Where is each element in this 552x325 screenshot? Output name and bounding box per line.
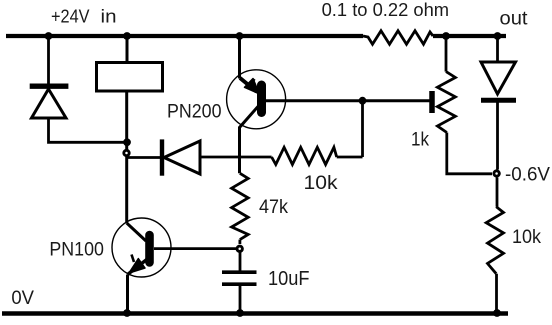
svg-text:PN100: PN100 xyxy=(49,239,104,261)
svg-text:out: out xyxy=(500,9,529,30)
transistor Q2 collector lead xyxy=(127,223,146,241)
wire: D1 anode down and right to node xyxy=(49,118,128,142)
wire: node to R4 xyxy=(496,178,499,207)
svg-text:10k: 10k xyxy=(512,226,541,248)
node: junction dot 0V/capacitor xyxy=(236,309,244,317)
relay coil box xyxy=(97,63,163,92)
potentiometer VR1 1k zigzag xyxy=(437,72,455,133)
node: junction dot rail/out diode xyxy=(494,32,502,40)
diode D3 triangle xyxy=(481,62,516,94)
node: junction dot rail/D1 xyxy=(45,32,53,40)
transistor Q1 PN200 circle xyxy=(227,70,286,129)
node: junction dot 0V/Q2 emitter xyxy=(123,309,131,317)
svg-text:0V: 0V xyxy=(11,287,34,309)
wire: Q2 emitter to 0V rail xyxy=(126,275,129,313)
wire: rail to D1 cathode xyxy=(47,36,50,84)
svg-text:10uF: 10uF xyxy=(268,268,310,290)
svg-text:0.1 to 0.22 ohm: 0.1 to 0.22 ohm xyxy=(322,0,450,20)
transistor Q2 PN100 circle xyxy=(112,218,171,277)
node B: ring junction to D2 xyxy=(124,150,129,155)
wire: node to D2 cathode xyxy=(127,156,160,159)
wire: rail to pot top xyxy=(445,38,448,72)
svg-text:47k: 47k xyxy=(259,196,288,218)
resistor R2 47k vertical zigzag xyxy=(232,173,249,239)
wire: node to capacitor xyxy=(239,252,242,271)
wire: top rail right segment to out xyxy=(433,34,506,38)
node: junction dot rail/Q1 emitter xyxy=(236,32,244,40)
resistor R4 10k vertical zigzag xyxy=(486,207,503,274)
svg-text:10k: 10k xyxy=(304,172,338,194)
wire: D3 to -0.6V node xyxy=(496,103,499,170)
wire: R4 to 0V rail xyxy=(495,274,498,312)
wire: bottom 0V rail xyxy=(2,311,508,316)
node: junction dot 0V/R4 xyxy=(493,309,501,317)
potentiometer VR1 wiper bar xyxy=(429,91,435,113)
node C: ring junction 47k/cap/collector xyxy=(237,246,242,251)
wire: rail to Q1 emitter xyxy=(238,38,241,79)
diode D2 triangle xyxy=(164,141,200,174)
diode D3 cathode bar xyxy=(481,98,516,103)
transistor Q2 base bar xyxy=(145,235,154,263)
wire: capacitor to 0V rail xyxy=(239,286,242,312)
transistor Q1 collector lead down xyxy=(240,107,259,174)
wire: Q2 base to node C xyxy=(154,247,237,250)
node D: ring junction -0.6V xyxy=(494,171,499,176)
diode D2 cathode bar xyxy=(160,139,164,175)
wire: R3 right end up to base node xyxy=(337,101,363,157)
transistor Q2 emitter arrowhead xyxy=(129,259,145,273)
svg-text:-0.6V: -0.6V xyxy=(505,165,550,186)
wire: top +24V rail left segment xyxy=(6,34,363,38)
wire: relay box down to PN100 xyxy=(125,91,128,223)
node: junction dot rail/pot top xyxy=(442,32,450,40)
wire: D2 anode to R3 xyxy=(200,156,272,159)
svg-text:in: in xyxy=(101,6,117,27)
diode D1 cathode bar xyxy=(30,83,69,88)
node A: junction dot D1/relay wire xyxy=(123,138,131,146)
svg-text:1k: 1k xyxy=(411,130,429,151)
transistor Q1 emitter lead xyxy=(240,78,257,92)
capacitor C1 bottom plate xyxy=(222,282,257,286)
capacitor C1 top plate xyxy=(222,270,257,274)
transistor Q1 base bar xyxy=(257,85,266,113)
node: junction dot rail/relay xyxy=(123,32,131,40)
wire: R2 bottom to node xyxy=(238,240,241,244)
resistor R3 10k horizontal zigzag xyxy=(272,147,337,164)
diode D1 triangle xyxy=(32,89,67,118)
svg-text:+24V: +24V xyxy=(51,6,90,27)
wire: Q1 base to pot wiper xyxy=(266,99,430,102)
svg-text:PN200: PN200 xyxy=(167,101,222,123)
resistor R1 0.1 to 0.22 ohm zigzag xyxy=(363,31,433,44)
transistor Q1 emitter arrowhead xyxy=(245,79,260,95)
wire: pot bottom to -0.6V node xyxy=(447,133,492,174)
transistor Q2 emitter lead xyxy=(128,259,149,275)
wire: rail to relay box xyxy=(126,38,129,61)
node: junction dot base/R3 xyxy=(359,97,367,105)
wire: out rail to D3 xyxy=(496,38,499,62)
